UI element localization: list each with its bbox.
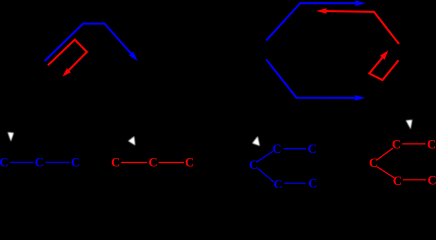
red ring hairpin backtrack arrow	[369, 55, 398, 80]
blue chain bond C2-C3	[45, 161, 69, 163]
svg-text:C: C	[393, 174, 402, 188]
svg-text:C: C	[427, 173, 436, 187]
svg-text:C: C	[148, 156, 157, 170]
svg-text:C: C	[369, 156, 378, 170]
svg-text:C: C	[427, 138, 436, 152]
blue zigzag path arrow (linear molecule, forward walk)	[45, 24, 134, 62]
svg-text:C: C	[111, 156, 120, 170]
svg-text:C: C	[249, 158, 258, 172]
white cursor triangle 4 (red ring)	[406, 120, 413, 129]
red ring bond left-top	[377, 148, 393, 160]
svg-text:C: C	[272, 142, 281, 156]
svg-text:C: C	[35, 155, 44, 169]
white cursor triangle 1 (blue chain)	[8, 132, 14, 141]
blue zigzag arrowhead	[129, 52, 138, 61]
blue ring bond left-bottom	[258, 169, 274, 182]
blue ring bond bottom horizontal	[284, 182, 305, 184]
blue ring bond left-top	[257, 151, 273, 162]
blue ring lower arrowhead	[355, 95, 366, 101]
red chain bond C2-C3	[159, 162, 184, 164]
svg-text:C: C	[185, 156, 194, 170]
svg-text:C: C	[0, 155, 9, 169]
red chain bond C1-C2	[121, 162, 147, 164]
white cursor triangle 3 (blue ring)	[252, 136, 260, 146]
blue ring upper arrowhead	[355, 0, 366, 6]
red ring bond top horizontal	[402, 143, 425, 145]
svg-text:C: C	[274, 177, 283, 188]
red ring hairpin arrowhead	[380, 50, 388, 59]
blue ring bond top horizontal	[284, 148, 307, 150]
svg-text:C: C	[71, 155, 80, 169]
svg-text:C: C	[308, 142, 317, 156]
red ring top arrowhead	[316, 8, 327, 14]
red ring bond left-bottom	[377, 167, 394, 178]
blue ring lower path arrow	[266, 59, 359, 98]
blue ring upper path arrow	[266, 3, 359, 41]
blue chain bond C1-C2	[10, 161, 34, 163]
red hairpin backtrack arrow (linear molecule, reverse walk)	[48, 40, 87, 73]
svg-text:C: C	[308, 177, 317, 188]
red ring top reverse arrow	[322, 11, 399, 44]
red ring bond bottom horizontal	[403, 179, 426, 181]
white cursor triangle 2 (red chain)	[128, 136, 135, 145]
red hairpin arrowhead	[63, 68, 71, 76]
svg-text:C: C	[392, 138, 401, 152]
